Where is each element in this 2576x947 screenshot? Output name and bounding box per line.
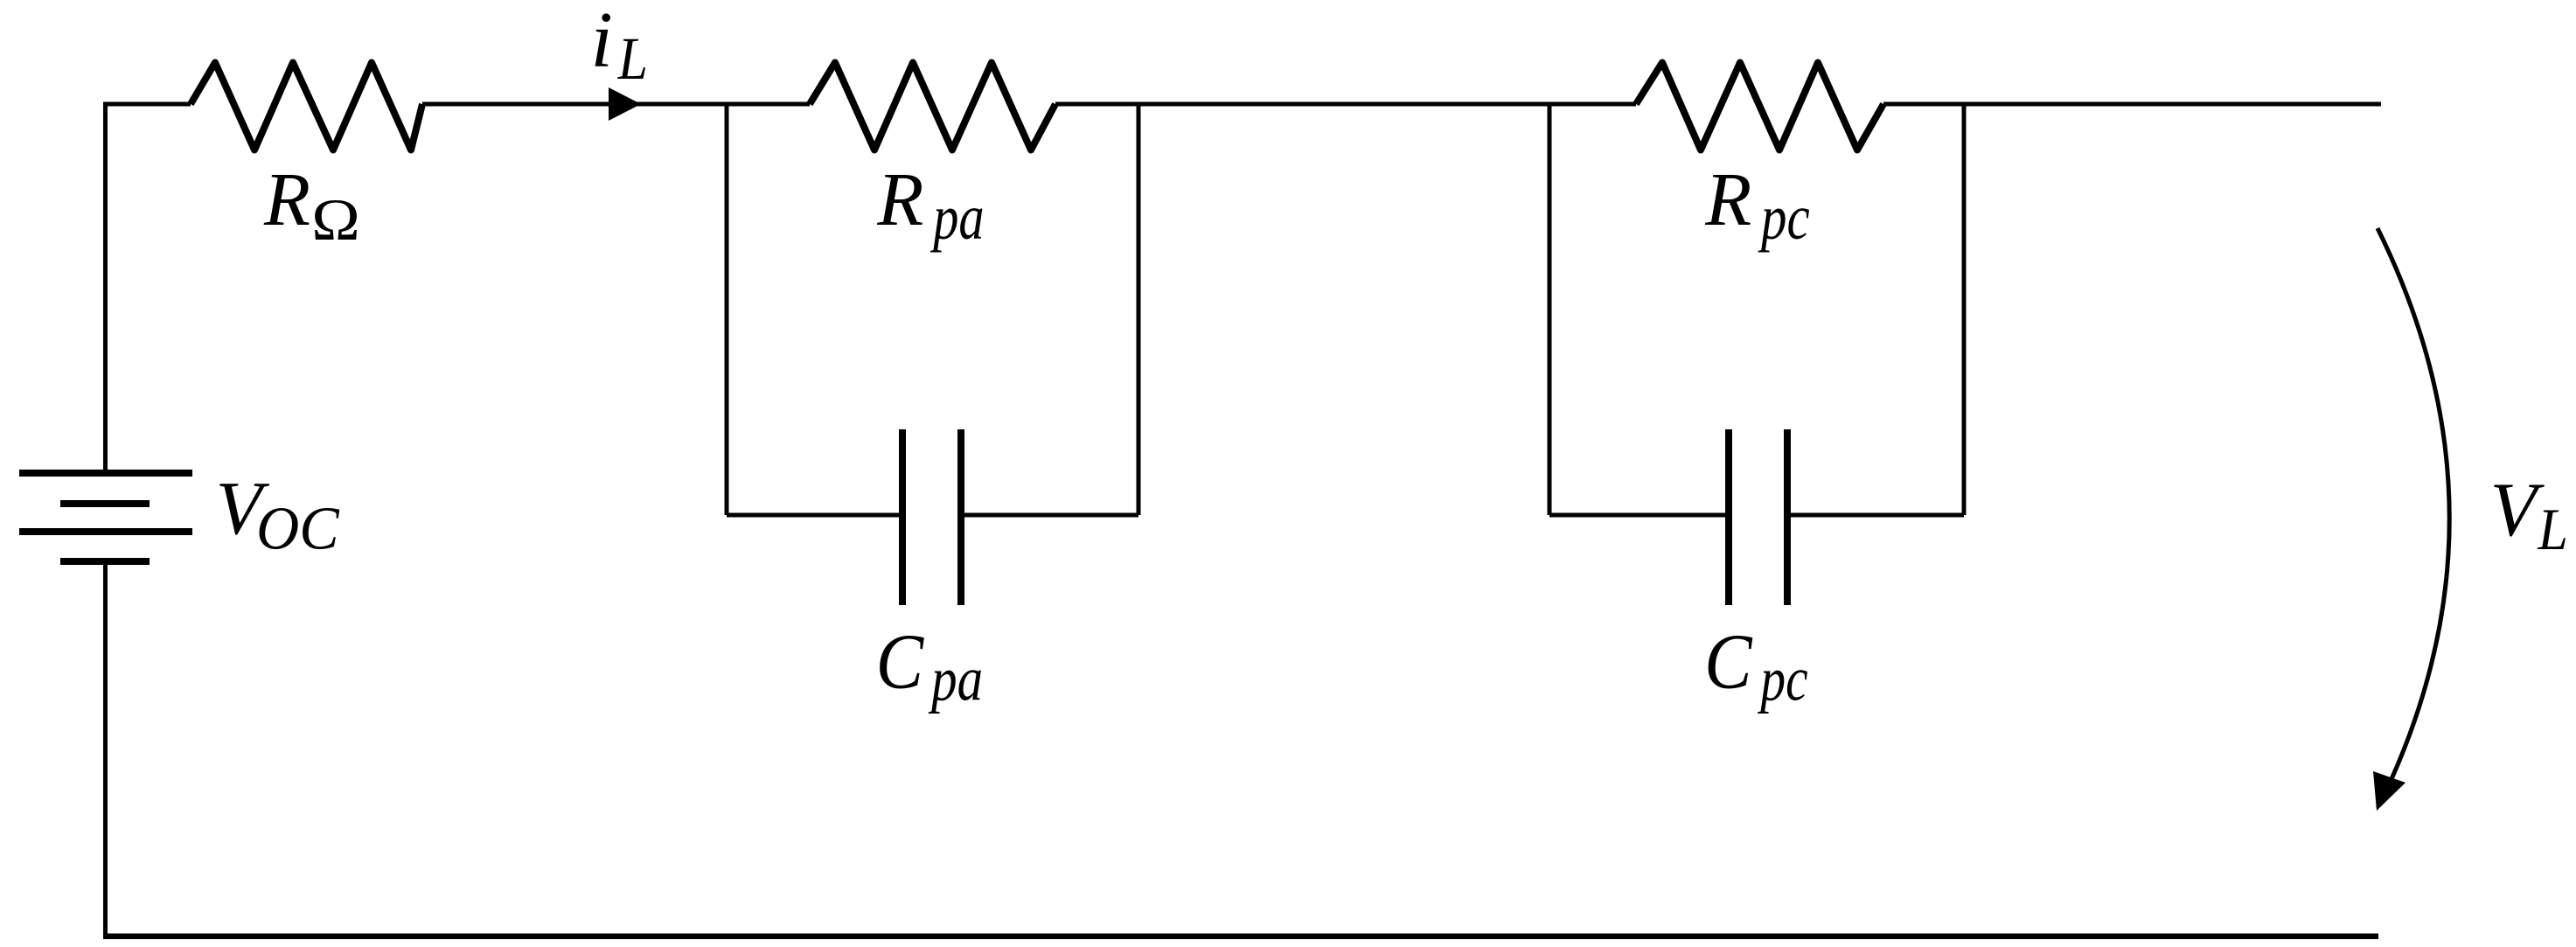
svg-text:pc: pc <box>1758 183 1809 253</box>
svg-text:V: V <box>2490 468 2545 553</box>
svg-text:L: L <box>2538 496 2568 561</box>
svg-text:pa: pa <box>930 183 985 254</box>
svg-text:C: C <box>876 617 925 706</box>
svg-text:OC: OC <box>256 494 339 562</box>
svg-text:pc: pc <box>1758 645 1808 715</box>
svg-text:R: R <box>263 157 310 241</box>
svg-text:L: L <box>617 26 648 93</box>
svg-text:R: R <box>1704 157 1751 241</box>
svg-text:Ω: Ω <box>311 187 360 253</box>
svg-text:i: i <box>591 0 613 84</box>
svg-text:pa: pa <box>929 644 984 714</box>
svg-text:R: R <box>876 157 923 241</box>
svg-text:C: C <box>1704 617 1753 706</box>
